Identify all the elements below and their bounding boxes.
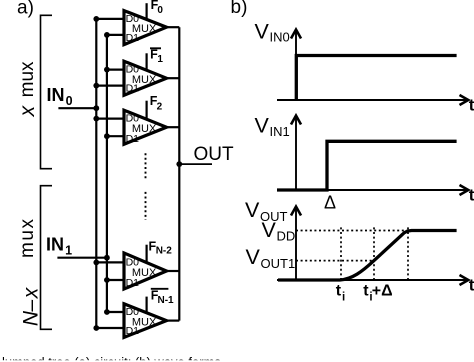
svg-text:V: V (262, 218, 277, 242)
svg-text:x: x (16, 104, 39, 117)
waveform VIN1: step trace (277, 141, 457, 190)
waveform VOUT: t axis (277, 279, 467, 281)
wire mux3 D1 from bus2 (107, 135, 124, 137)
waveform VIN0: label (255, 20, 290, 45)
waveform VIN1: t axis (277, 189, 467, 191)
label ti (336, 283, 345, 304)
wire mux1 D1 from bus2 (107, 34, 124, 36)
wire mux1 D0 from bus1 (96, 18, 124, 20)
junction dot mux5 D1 (bus1 bottom) (93, 325, 99, 331)
waveform VOUT: y axis (295, 208, 297, 280)
dotted level line VDD (296, 230, 409, 232)
label F0 (151, 0, 164, 16)
junction dot bus1 top (93, 16, 99, 22)
svg-text:t: t (336, 283, 342, 300)
svg-text:a): a) (17, 0, 34, 19)
svg-text:V: V (245, 198, 260, 222)
svg-text:IN: IN (47, 85, 65, 105)
junction dot mux4 D1 (104, 277, 110, 283)
dotted time line ti+delta (373, 227, 375, 281)
svg-text:V: V (255, 20, 270, 44)
svg-text:D1: D1 (126, 133, 140, 145)
mux U2 (select F1bar) (124, 61, 167, 95)
label VDD (262, 218, 296, 244)
junction dot mux4 D0 (93, 260, 99, 266)
svg-text:DD: DD (277, 229, 296, 244)
wire mux2 output to right bus (164, 77, 179, 79)
select stub FN-2 (146, 245, 148, 263)
svg-text:Δ: Δ (324, 192, 336, 212)
dotted level line VOUT1 (296, 260, 375, 262)
wire OUT (179, 163, 212, 165)
wire mux2 D1 from bus1 (96, 84, 124, 86)
bus IN1 (vertical rail 2) (106, 35, 108, 312)
svg-text:OUT: OUT (194, 144, 235, 165)
svg-text:x: x (20, 286, 43, 299)
svg-text:t: t (469, 276, 474, 295)
junction dot IN0/bus1 (93, 105, 99, 111)
wire IN0 to bus1 (58, 107, 96, 109)
waveform VOUT: t axis arrowhead (460, 275, 469, 285)
waveform VIN0: t axis arrowhead (460, 95, 469, 105)
svg-text:t: t (469, 96, 474, 115)
svg-text:2: 2 (157, 101, 163, 112)
junction dot mux5 D0 (bus2 bottom) (104, 309, 110, 315)
ellipsis dotted line between mux groups (145, 153, 147, 180)
junction dot OUT (176, 161, 182, 167)
svg-text:mux: mux (17, 217, 38, 258)
svg-text:IN0: IN0 (270, 30, 290, 45)
svg-text:0: 0 (66, 94, 73, 108)
svg-text:N-1: N-1 (158, 295, 175, 306)
mux U4 (select FN-2) (124, 253, 167, 289)
wire mux5 D0 from bus2 (107, 311, 124, 313)
mux U3 (select F2) (124, 110, 167, 145)
label FN-1 with overbar (151, 288, 174, 306)
label F1 with overbar (150, 47, 163, 65)
svg-text:0: 0 (157, 5, 163, 16)
waveform VIN1: t axis arrowhead (460, 185, 469, 195)
wire mux5 output to right bus (164, 320, 179, 322)
svg-text:b): b) (231, 0, 248, 18)
svg-text:D1: D1 (126, 83, 140, 95)
waveform VOUT: y axis arrowhead (291, 207, 301, 216)
svg-text:IN1: IN1 (270, 124, 290, 139)
waveform VIN1: y axis (295, 117, 297, 190)
svg-text:V: V (255, 113, 270, 137)
svg-text:OUT1: OUT1 (261, 256, 296, 271)
label VOUT1 (246, 245, 296, 271)
bracket x-mux group (41, 15, 53, 168)
wire mux3 output to right bus (164, 126, 179, 128)
wire mux4 D1 from bus2 (107, 279, 124, 281)
label ti+delta (363, 283, 392, 304)
dotted time line ti (340, 227, 342, 281)
waveform VOUT: label (245, 198, 288, 224)
waveform VIN1: y axis arrowhead (291, 116, 301, 125)
junction dot mux3 D1 (104, 133, 110, 139)
dotted time line ramp end (407, 227, 409, 281)
mux U1 (select F0) (124, 11, 167, 45)
svg-text:t: t (363, 283, 369, 300)
waveform VIN0: y axis arrowhead (291, 30, 301, 39)
ellipsis dotted line lower segment (145, 192, 147, 220)
junction dot mux2 D1 (93, 83, 99, 89)
select stub F0 (146, 3, 148, 20)
wire mux1 output to right bus (164, 26, 179, 28)
wire mux4 D0 from bus1 (96, 261, 124, 263)
bracket N-x mux group (41, 186, 53, 330)
junction dot IN1/bus2 (104, 255, 110, 261)
svg-text:V: V (246, 245, 261, 269)
waveform VIN1: label (255, 113, 290, 139)
label F2 (150, 94, 163, 113)
wire mux2 D0 from bus2 (107, 68, 124, 70)
junction dot bus2 top (104, 32, 110, 38)
junction dot mux3 D0 (93, 116, 99, 122)
svg-text:–: – (20, 300, 43, 313)
wire mux4 output to right bus (164, 270, 179, 272)
svg-text:D1: D1 (126, 32, 140, 44)
bus IN0 (vertical rail 1) (95, 19, 97, 328)
junction dot mux2 D0 (104, 67, 110, 73)
svg-text:i: i (342, 291, 345, 303)
label FN-2 (149, 239, 173, 256)
waveform VIN0: y axis (295, 31, 297, 100)
svg-text:+Δ: +Δ (372, 283, 393, 300)
select stub F2 (146, 101, 148, 120)
waveform VOUT: ramp trace (278, 231, 457, 281)
svg-text:t: t (469, 186, 474, 205)
mux U5 (select FN-1 bar) (124, 304, 167, 338)
select stub F1bar (146, 53, 148, 70)
select stub FN-1 (146, 297, 148, 313)
svg-text:1: 1 (157, 54, 163, 65)
waveform VIN0: t axis (277, 99, 467, 101)
svg-text:IN: IN (46, 234, 64, 254)
svg-text:D1: D1 (126, 277, 140, 289)
output bus (right vertical) (178, 27, 180, 320)
wire mux3 D0 from bus1 (96, 117, 124, 119)
svg-text:1: 1 (65, 244, 72, 258)
wire mux5 D1 from bus1 (96, 327, 124, 329)
svg-text:N-2: N-2 (156, 246, 173, 257)
svg-text:D1: D1 (126, 325, 140, 337)
wire IN1 to bus2 (57, 257, 107, 259)
svg-text:mux: mux (17, 61, 38, 97)
waveform VIN0: step trace (296, 56, 456, 101)
